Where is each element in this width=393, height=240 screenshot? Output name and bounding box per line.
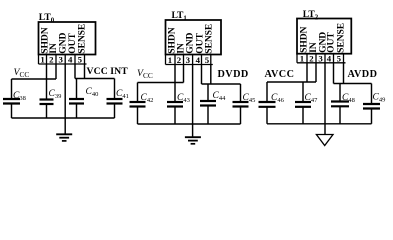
svg-text:SENSE: SENSE bbox=[77, 24, 88, 54]
wire pin3 GND down to ground bbox=[192, 65, 194, 138]
wire pin5 SENSE stub bbox=[210, 65, 212, 85]
svg-text:VCC INT: VCC INT bbox=[87, 66, 129, 77]
wire pin2 IN stub bbox=[315, 63, 317, 82]
capacitor C40 bbox=[69, 79, 98, 119]
regulator U3 LT2 bbox=[297, 9, 351, 63]
capacitor C41 bbox=[107, 79, 129, 119]
svg-text:3: 3 bbox=[186, 55, 191, 65]
svg-text:5: 5 bbox=[205, 55, 210, 65]
wire ground rail bbox=[267, 123, 372, 125]
svg-text:3: 3 bbox=[58, 55, 63, 65]
wire pin2 IN stub bbox=[55, 64, 57, 79]
svg-text:2: 2 bbox=[177, 55, 182, 65]
wire pin2 IN stub bbox=[183, 65, 185, 83]
capacitor C49 bbox=[363, 84, 385, 124]
svg-text:4: 4 bbox=[68, 55, 73, 65]
wire output rail bbox=[202, 83, 241, 85]
svg-text:2: 2 bbox=[49, 55, 54, 65]
capacitor C38 bbox=[3, 79, 26, 118]
capacitor C42 bbox=[130, 83, 154, 125]
wire pin4 OUT stub bbox=[74, 64, 76, 79]
regulator U1 LT0 bbox=[39, 12, 96, 65]
svg-text:AVDD: AVDD bbox=[348, 69, 378, 80]
wire input rail bbox=[267, 81, 316, 83]
svg-text:4: 4 bbox=[196, 55, 201, 65]
wire input rail bbox=[138, 82, 184, 84]
svg-text:5: 5 bbox=[78, 55, 83, 65]
wire pin5 SENSE stub bbox=[84, 64, 86, 79]
wire pin5 SENSE stub bbox=[343, 63, 345, 84]
svg-text:DVDD: DVDD bbox=[218, 69, 249, 80]
svg-text:1: 1 bbox=[40, 55, 44, 65]
wire ground rail bbox=[138, 123, 241, 125]
wire pin3 GND down to ground bbox=[324, 63, 326, 135]
svg-text:2: 2 bbox=[309, 53, 314, 63]
capacitor C48 bbox=[331, 84, 355, 124]
wire pin1 SHDN stub bbox=[174, 65, 176, 83]
capacitor C46 bbox=[259, 82, 285, 124]
capacitor C45 bbox=[233, 84, 256, 124]
capacitor C39 bbox=[40, 79, 62, 118]
wire input rail bbox=[12, 78, 57, 80]
svg-text:3: 3 bbox=[318, 53, 323, 63]
wire output rail bbox=[75, 78, 115, 80]
ground (earth) bbox=[185, 137, 201, 144]
capacitor C43 bbox=[167, 83, 190, 125]
wire pin4 OUT stub bbox=[333, 63, 335, 84]
wire pin4 OUT stub bbox=[201, 65, 203, 85]
wire pin1 SHDN stub bbox=[306, 63, 308, 82]
svg-text:SENSE: SENSE bbox=[204, 24, 215, 54]
svg-text:SENSE: SENSE bbox=[336, 23, 347, 53]
wire ground rail bbox=[12, 117, 115, 119]
svg-text:1: 1 bbox=[168, 55, 172, 65]
svg-text:AVCC: AVCC bbox=[265, 69, 295, 80]
regulator U2 LT1 bbox=[166, 10, 222, 65]
svg-text:5: 5 bbox=[337, 53, 342, 63]
capacitor C47 bbox=[295, 82, 318, 124]
wire pin1 SHDN stub bbox=[46, 64, 48, 79]
wire pin3 GND down to ground bbox=[64, 64, 66, 134]
ground (analog, triangle) bbox=[316, 135, 333, 146]
ground (earth) bbox=[56, 134, 72, 141]
wire output rail bbox=[334, 83, 372, 85]
svg-text:4: 4 bbox=[327, 53, 332, 63]
capacitor C44 bbox=[200, 84, 226, 124]
svg-text:1: 1 bbox=[300, 53, 304, 63]
